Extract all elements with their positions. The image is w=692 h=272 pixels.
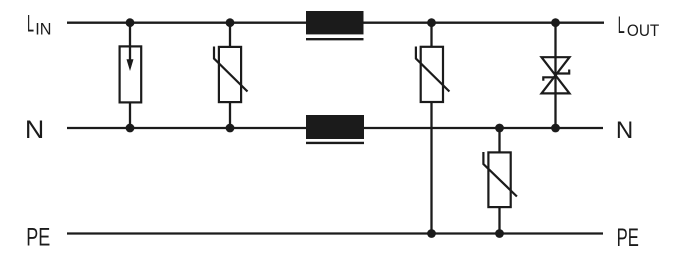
wire RV3 top lead	[498, 128, 500, 152]
junction N/RV3	[495, 124, 504, 133]
junction L/D1	[551, 18, 560, 27]
svg-text:N: N	[616, 117, 633, 144]
svg-text:IN: IN	[35, 21, 51, 39]
wire F1 top lead	[129, 23, 131, 62]
wire RV2 bottom lead to PE (crosses N without junction)	[430, 102, 432, 234]
wire RV2 top lead	[430, 23, 432, 47]
junction N/D1	[551, 124, 560, 133]
inductor L2 (choke winding on N line)	[306, 115, 364, 143]
svg-text:PE: PE	[617, 225, 639, 252]
inductor L1 (choke winding on L line)	[306, 11, 364, 39]
junction N/RV1	[226, 124, 235, 133]
wire RV1 bottom lead	[229, 102, 231, 128]
svg-text:N: N	[25, 117, 44, 144]
wire D1 vertical lead L to N	[554, 23, 556, 128]
svg-text:L: L	[618, 12, 625, 39]
net label L_IN	[27, 10, 52, 38]
junction L/F1	[126, 18, 135, 27]
varistor RV3 (N to PE)	[483, 152, 517, 207]
svg-text:L: L	[27, 10, 34, 37]
junction L/RV2	[427, 18, 436, 27]
varistor RV2 (L to PE)	[416, 47, 450, 103]
suppressor diode D1 (bidirectional TVS, L to N)	[542, 57, 570, 93]
svg-text:OUT: OUT	[627, 22, 659, 40]
junction L/RV1	[226, 18, 235, 27]
net label L_OUT	[618, 12, 660, 40]
junction PE/RV3	[495, 229, 504, 238]
wire RV3 bottom lead	[498, 207, 500, 234]
varistor RV1 (L to N)	[214, 47, 248, 103]
svg-text:PE: PE	[26, 224, 50, 251]
junction N/F1	[126, 124, 135, 133]
arrester F1 (box with down arrow, between L and N)	[120, 46, 142, 102]
wire N (middle line)	[67, 127, 603, 129]
wire L (top line, L_IN to L_OUT)	[67, 22, 604, 24]
wire F1 bottom lead	[129, 102, 131, 128]
junction PE/RV2	[427, 229, 436, 238]
wire RV1 top lead	[229, 23, 231, 47]
wire PE (bottom line)	[67, 232, 603, 234]
